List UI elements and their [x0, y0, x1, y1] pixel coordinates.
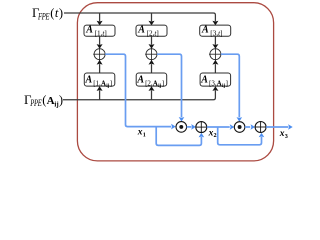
box A[3,t] [200, 25, 231, 38]
svg-text:FPE: FPE [37, 11, 50, 21]
arrowhead up into A[1,Aij] [97, 86, 103, 91]
arrowhead into adder S2 [149, 44, 155, 49]
blue arrowhead into adder P1 [191, 124, 196, 130]
adder P1 (circle plus) [196, 122, 207, 133]
arrowhead up into adder S2 [149, 60, 155, 65]
svg-text:A: A [137, 25, 145, 36]
wire: branch up to box A[2,Aij] [151, 90, 153, 100]
box A[1,t] [84, 25, 115, 38]
svg-text:[1,t]: [1,t] [95, 30, 107, 38]
blue arrowhead up into adder P2 [259, 133, 265, 138]
box A[2,t] [136, 25, 167, 38]
adder S2 (circle plus) [145, 48, 158, 61]
wire: A[3,t] down to adder S3 [214, 36, 216, 45]
blue arrowhead down into multiplier M1 [179, 117, 185, 122]
label x1 [137, 128, 146, 139]
svg-text:3: 3 [285, 133, 288, 140]
svg-text:]: ] [226, 79, 228, 87]
blue wire: x1 loop down-right up into adder P1 [156, 127, 201, 146]
wire: top input line from Gamma_FPE across to column 3 [64, 13, 215, 21]
svg-text:A: A [200, 75, 208, 86]
multiplier M1 (circle dot) [176, 122, 187, 133]
svg-text:): ) [59, 93, 63, 107]
wire: branch down to box A[2,t] [151, 13, 153, 21]
arrowhead into adder S3 [212, 44, 218, 49]
svg-text:[1,: [1, [93, 79, 101, 87]
label x3 [279, 129, 288, 140]
blue arrowhead into multiplier M2 [230, 124, 235, 130]
svg-text:]: ] [162, 79, 164, 87]
wire: A[2,t] down to adder S2 [151, 36, 153, 45]
svg-text:A: A [85, 25, 93, 36]
label Gamma_PPE(Aij) [24, 92, 63, 108]
blue wire: P1 output x2 to multiplier M2 [207, 126, 230, 128]
blue arrowhead down into multiplier M2 [237, 117, 243, 122]
svg-text:[2,: [2, [145, 79, 153, 87]
svg-text:[2,t]: [2,t] [147, 30, 159, 38]
adder S3 (circle plus) [209, 48, 222, 61]
svg-text:1: 1 [143, 131, 146, 138]
wire: A[1,Aij] up into adder S1 [99, 64, 101, 73]
svg-text:]: ] [110, 79, 112, 87]
blue wire: adder S3 output right and down into multiplier M2 [221, 54, 239, 117]
svg-text:2: 2 [214, 132, 217, 139]
label x2 [208, 128, 217, 139]
blue arrowhead into multiplier M1 [171, 124, 176, 130]
wire: lower input line from Gamma_PPE across to column 3 [63, 90, 215, 100]
wire: A[1,t] down to adder S1 [99, 36, 101, 45]
arrowhead up into A[3,Aij] [212, 86, 218, 91]
arrowhead into adder S1 [97, 44, 103, 49]
wire: branch down to box A[1,t] [99, 13, 101, 21]
svg-text:A: A [47, 95, 55, 107]
adder P2 (circle plus) [255, 122, 266, 133]
svg-text:A: A [136, 75, 144, 86]
blue arrowhead into adder P2 [251, 124, 256, 130]
svg-text:(t): (t) [50, 6, 63, 20]
svg-text:[3,: [3, [209, 79, 217, 87]
blue wire: adder S1 output right and down to x1 node [105, 54, 171, 126]
adder S1 (circle plus) [93, 48, 106, 61]
blue wire: M1 to adder P1 [187, 126, 192, 128]
blue wire: M2 to adder P2 [245, 126, 250, 128]
arrowhead up into adder S1 [97, 60, 103, 65]
wire: A[2,Aij] up into adder S2 [151, 64, 153, 73]
blue arrowhead up into adder P1 [199, 133, 205, 138]
wire: A[3,Aij] up into adder S3 [214, 64, 216, 73]
arrowhead up into adder S3 [212, 60, 218, 65]
blue wire: adder S2 output right and down into multiplier M1 [157, 54, 182, 117]
svg-text:A: A [201, 25, 209, 36]
svg-text:[3,t]: [3,t] [210, 30, 222, 38]
label Gamma_FPE(t) [32, 5, 64, 21]
blue wire: x2 loop down-right up into adder P2 [218, 127, 262, 145]
svg-text:A: A [85, 75, 93, 86]
svg-text:PPE: PPE [29, 98, 42, 108]
blue wire: output x3 exits the frame [266, 126, 288, 128]
arrowhead into A[1,t] [97, 21, 103, 26]
wire: branch up to box A[1,Aij] [99, 90, 101, 100]
blue arrowhead output x3 [288, 124, 293, 130]
arrowhead into A[3,t] [212, 21, 218, 26]
multiplier M2 (circle dot) [234, 122, 245, 133]
box A[1,Aij] [84, 73, 115, 89]
arrowhead into A[2,t] [149, 21, 155, 26]
arrowhead up into A[2,Aij] [149, 86, 155, 91]
box A[2,Aij] [136, 73, 167, 89]
box A[3,Aij] [200, 73, 231, 89]
red rounded border frame [77, 3, 273, 161]
